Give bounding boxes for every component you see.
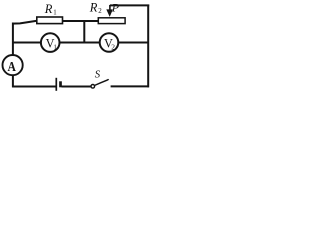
resistor R1 xyxy=(37,17,63,24)
wire top-left horizontal (corner to R1) xyxy=(12,21,37,24)
voltmeter V1 xyxy=(41,33,60,52)
wire left vertical upper xyxy=(12,23,14,55)
wire between voltmeters xyxy=(59,42,100,44)
wire bottom left (corner to battery) xyxy=(12,86,56,88)
rheostat slider arrow P xyxy=(109,5,111,11)
battery long plate xyxy=(55,78,57,91)
resistor R2 (rheostat track) xyxy=(98,18,125,24)
wire battery to switch xyxy=(62,86,91,88)
svg-text:A: A xyxy=(8,60,17,75)
svg-text:2: 2 xyxy=(98,7,102,15)
node junction between R1 and R2 xyxy=(83,21,85,43)
switch S pivot xyxy=(91,85,95,89)
svg-text:P: P xyxy=(111,1,120,15)
voltmeter V2 xyxy=(100,33,119,52)
svg-text:R: R xyxy=(89,0,98,14)
wire slider to top-right corner xyxy=(110,4,149,6)
wire R1 to R2 xyxy=(63,20,99,22)
svg-text:1: 1 xyxy=(53,10,56,17)
wire switch to bottom-right corner xyxy=(111,85,149,87)
switch lever xyxy=(94,79,108,85)
wire voltmeter row left xyxy=(12,42,41,44)
battery short plate xyxy=(59,81,62,87)
svg-text:R: R xyxy=(44,2,53,16)
svg-text:1: 1 xyxy=(53,43,57,51)
wire left vertical lower xyxy=(12,75,14,87)
wire voltmeter row right xyxy=(118,42,149,44)
svg-text:S: S xyxy=(95,69,101,81)
svg-text:2: 2 xyxy=(111,42,115,51)
wire right vertical xyxy=(147,5,149,88)
ammeter A xyxy=(3,55,23,75)
